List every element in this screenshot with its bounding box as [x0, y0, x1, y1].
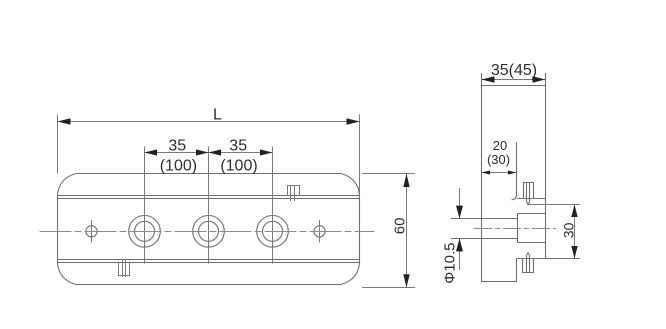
svg-text:60: 60 — [392, 218, 409, 235]
svg-text:(100): (100) — [160, 158, 197, 175]
svg-text:35: 35 — [229, 137, 247, 154]
svg-text:30: 30 — [561, 222, 577, 238]
svg-text:20: 20 — [493, 138, 507, 153]
svg-text:(100): (100) — [220, 158, 257, 175]
svg-text:(30): (30) — [487, 152, 510, 167]
svg-text:35(45): 35(45) — [491, 62, 537, 79]
svg-text:35: 35 — [168, 137, 186, 154]
svg-text:L: L — [213, 107, 222, 124]
svg-text:Φ10.5: Φ10.5 — [442, 243, 459, 284]
